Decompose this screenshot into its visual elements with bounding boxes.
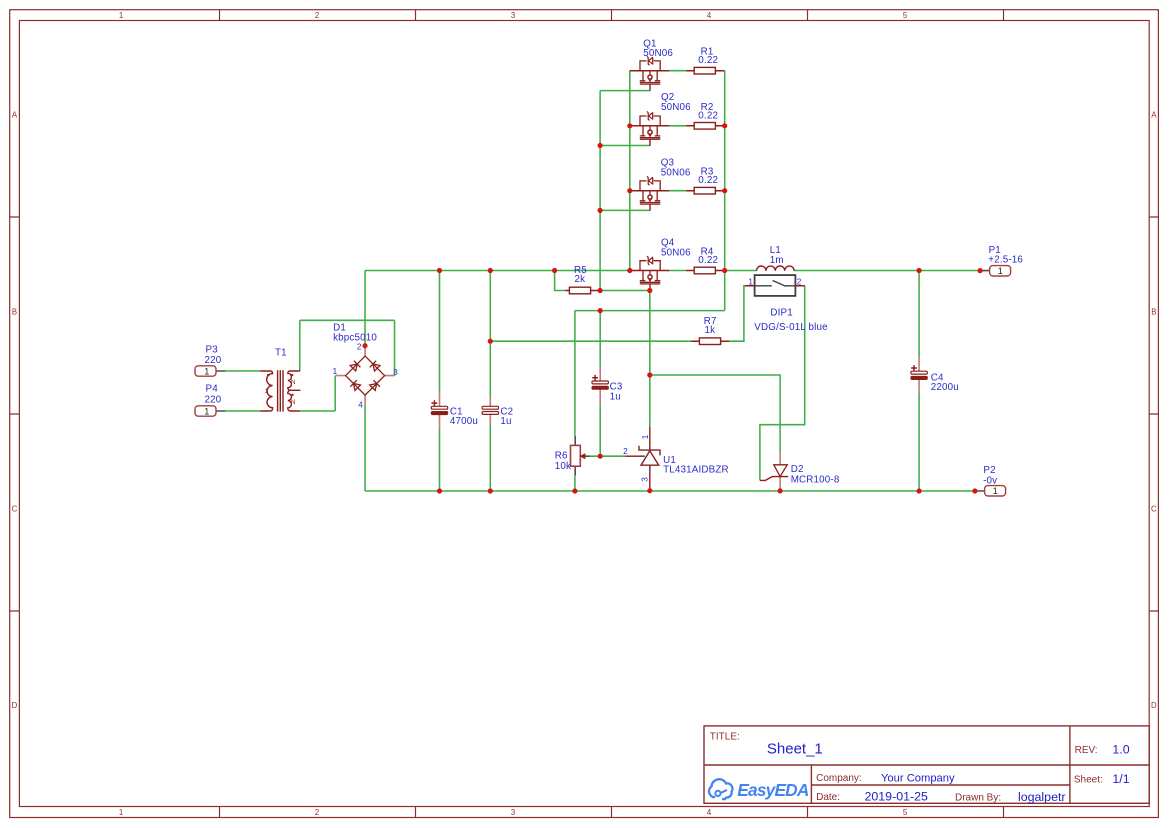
svg-text:B: B xyxy=(1151,308,1156,317)
svg-text:REV:: REV: xyxy=(1075,745,1098,756)
svg-text:1: 1 xyxy=(333,367,338,376)
svg-text:3: 3 xyxy=(641,477,650,482)
svg-text:1: 1 xyxy=(119,808,123,817)
svg-text:D: D xyxy=(12,701,18,710)
svg-text:T1: T1 xyxy=(275,348,287,359)
svg-text:50N06: 50N06 xyxy=(661,247,691,258)
svg-text:3: 3 xyxy=(393,368,398,377)
svg-text:MCR100-8: MCR100-8 xyxy=(791,474,840,485)
svg-text:0.22: 0.22 xyxy=(698,175,718,186)
svg-text:C: C xyxy=(12,505,18,514)
svg-text:2200u: 2200u xyxy=(931,382,959,393)
svg-text:P4: P4 xyxy=(206,384,219,395)
svg-text:Company:: Company: xyxy=(816,773,862,784)
svg-text:3: 3 xyxy=(511,808,515,817)
svg-text:C: C xyxy=(1151,505,1157,514)
svg-text:0.22: 0.22 xyxy=(698,255,718,266)
svg-text:2: 2 xyxy=(315,808,319,817)
svg-text:50N06: 50N06 xyxy=(661,102,691,113)
svg-text:4: 4 xyxy=(707,808,712,817)
svg-text:DIP1: DIP1 xyxy=(770,308,793,319)
svg-text:2: 2 xyxy=(623,447,628,456)
svg-text:Sheet_1: Sheet_1 xyxy=(767,740,823,757)
svg-text:2k: 2k xyxy=(575,274,586,285)
svg-text:kbpc5010: kbpc5010 xyxy=(333,333,377,344)
svg-text:1: 1 xyxy=(119,11,123,20)
svg-text:Sheet:: Sheet: xyxy=(1074,775,1103,786)
svg-text:220: 220 xyxy=(205,394,222,405)
svg-text:1m: 1m xyxy=(770,255,784,266)
svg-text:2: 2 xyxy=(357,343,362,352)
svg-text:1: 1 xyxy=(204,366,209,376)
svg-text:1: 1 xyxy=(265,388,269,395)
svg-text:Your Company: Your Company xyxy=(881,773,955,785)
svg-text:1: 1 xyxy=(204,406,209,416)
svg-text:2: 2 xyxy=(315,11,319,20)
svg-text:1k: 1k xyxy=(705,325,716,336)
svg-text:0.22: 0.22 xyxy=(698,55,718,66)
svg-text:+2.5-16: +2.5-16 xyxy=(988,255,1023,266)
svg-text:D: D xyxy=(1151,701,1157,710)
svg-text:A: A xyxy=(1151,111,1157,120)
svg-text:2: 2 xyxy=(797,277,802,286)
svg-text:220: 220 xyxy=(205,355,222,366)
svg-text:-0v: -0v xyxy=(983,475,997,486)
svg-text:5: 5 xyxy=(903,11,908,20)
svg-text:10k: 10k xyxy=(555,461,571,472)
svg-text:Drawn By:: Drawn By: xyxy=(955,793,1001,804)
svg-text:1: 1 xyxy=(998,266,1003,276)
svg-text:1u: 1u xyxy=(610,391,621,402)
svg-text:50N06: 50N06 xyxy=(643,48,673,59)
svg-text:TITLE:: TITLE: xyxy=(710,732,740,743)
svg-text:N: N xyxy=(291,399,296,406)
svg-text:50N06: 50N06 xyxy=(661,168,691,179)
svg-text:R6: R6 xyxy=(555,450,568,461)
svg-text:5: 5 xyxy=(903,808,908,817)
svg-text:logalpetr: logalpetr xyxy=(1018,790,1066,804)
svg-text:2019-01-25: 2019-01-25 xyxy=(865,789,928,803)
svg-text:1: 1 xyxy=(993,486,998,496)
svg-text:EasyEDA: EasyEDA xyxy=(737,780,809,800)
svg-text:Date:: Date: xyxy=(816,792,840,803)
svg-text:3: 3 xyxy=(511,11,515,20)
svg-text:A: A xyxy=(12,111,18,120)
svg-text:1: 1 xyxy=(641,434,650,439)
svg-text:1u: 1u xyxy=(500,416,511,427)
svg-text:4700u: 4700u xyxy=(450,416,478,427)
svg-text:N: N xyxy=(291,379,296,386)
svg-text:VDG/S-01L blue: VDG/S-01L blue xyxy=(754,322,828,333)
svg-text:1/1: 1/1 xyxy=(1112,772,1129,786)
svg-text:0.22: 0.22 xyxy=(698,110,718,121)
svg-text:1: 1 xyxy=(748,277,753,286)
svg-text:TL431AIDBZR: TL431AIDBZR xyxy=(663,464,729,475)
svg-text:B: B xyxy=(12,308,17,317)
svg-text:4: 4 xyxy=(707,11,712,20)
svg-text:1.0: 1.0 xyxy=(1112,743,1129,757)
svg-text:4: 4 xyxy=(358,401,363,410)
